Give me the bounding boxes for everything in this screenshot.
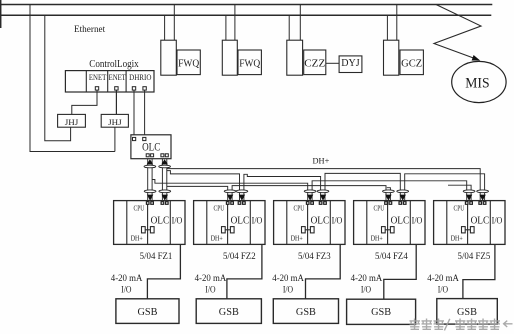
chassis divider 3 — [125, 71, 127, 92]
svg-text:CPU: CPU — [134, 206, 145, 213]
CZZ label box — [304, 50, 326, 75]
GCZ label box — [400, 50, 423, 75]
wire: bus1 drop to CZZ tower — [299, 5, 301, 41]
OLC tap2 transceiver — [161, 159, 168, 164]
svg-text:DH+: DH+ — [451, 234, 463, 242]
FWQ1 server tower — [161, 40, 177, 75]
wire: bus2 drop to FWQ2 tower — [225, 15, 227, 40]
FZ5 rack divider 2 — [467, 201, 469, 245]
OLC bottom terminals channel A — [146, 154, 149, 157]
svg-text:GSB: GSB — [457, 307, 477, 318]
DYJ box — [339, 56, 362, 73]
wire: OLC chA pair down to FZ1 tap1 — [147, 159, 149, 201]
wire: bus1 drop to GCZ tower — [396, 5, 398, 41]
svg-text:GSB: GSB — [296, 307, 316, 318]
svg-text:DH+: DH+ — [131, 234, 143, 242]
DHRIO port A — [132, 87, 135, 90]
svg-text:I/O: I/O — [283, 284, 293, 295]
FZ3 DH+ connector symbol — [302, 227, 306, 233]
svg-text:CPU: CPU — [294, 206, 305, 213]
wire: ENET1 to JHJ1 — [72, 90, 97, 114]
svg-text:GCZ: GCZ — [401, 58, 422, 69]
svg-text:I/O: I/O — [438, 284, 448, 295]
CZZ server tower — [287, 40, 303, 75]
arrowhead into MIS — [472, 55, 481, 61]
svg-text:OLC: OLC — [142, 140, 160, 154]
svg-text:ENET: ENET — [109, 73, 126, 82]
FZ3 tap2 transceiver — [317, 190, 329, 193]
ControlLogix chassis box — [65, 71, 154, 92]
ENET1 port — [95, 87, 98, 90]
FZ1 rack divider 1 — [126, 201, 128, 245]
5/04 FZ3 rack — [274, 201, 345, 245]
wire: DH+ hop FZ3 to FZ4 tap2 — [325, 173, 400, 200]
FZ5 rack divider 3 — [489, 201, 491, 245]
wire: DH+ trunk from OLC to FZ5 tap2 — [167, 169, 480, 201]
FZ2 rack divider 2 — [227, 201, 229, 245]
MIS ellipse — [452, 61, 506, 102]
FZ1 rack divider 2 — [147, 201, 149, 245]
svg-text:JHJ: JHJ — [65, 117, 79, 127]
JHJ1 box — [58, 114, 86, 127]
FZ1 tap terminals — [146, 202, 149, 205]
wire: bus2 left drop to JHJ1 return — [45, 15, 71, 141]
FZ1 DH+ connector symbol — [142, 227, 146, 233]
FZ4 tap terminals — [385, 202, 388, 205]
svg-text:I/O: I/O — [332, 216, 343, 226]
svg-text:4-20 mA: 4-20 mA — [111, 273, 143, 284]
svg-text:CPU: CPU — [454, 206, 465, 213]
wire: FZ4 rack to GSB4 — [384, 244, 416, 299]
FZ2 rack divider 1 — [206, 201, 208, 245]
svg-text:Ethernet: Ethernet — [74, 24, 105, 35]
FZ3 tap terminals — [306, 202, 309, 205]
GSB2 box — [196, 299, 261, 324]
wire: FZ4 tap1 second conductor — [387, 188, 391, 201]
FZ3 tap1 transceiver — [304, 190, 316, 193]
FZ1 tap2 transceiver — [159, 190, 171, 193]
FZ5 rack divider 1 — [446, 201, 448, 245]
left edge tick — [0, 0, 2, 28]
FZ5 tap2 transceiver — [477, 190, 489, 193]
FWQ1 label box — [177, 50, 200, 75]
wire: bus2 drop to CZZ tower — [288, 15, 290, 40]
wire: DH+ hop FZ2 to FZ3 tap2 — [244, 174, 321, 200]
GSB4 box — [347, 299, 416, 324]
svg-text:4-20 mA: 4-20 mA — [272, 273, 304, 284]
FZ2 tap2 transceiver — [236, 190, 248, 193]
FWQ2 label box — [238, 50, 261, 75]
svg-text:OLC: OLC — [151, 216, 170, 227]
svg-text:GSB: GSB — [371, 307, 391, 318]
wire: bus1 drop to FWQ2 tower — [234, 5, 236, 41]
FWQ2 server tower — [222, 40, 237, 75]
svg-text:CPU: CPU — [214, 206, 225, 213]
OLC bottom terminals channel B — [161, 154, 164, 157]
FZ3 rack divider 1 — [286, 201, 288, 245]
FZ3 rack divider 3 — [329, 201, 331, 245]
svg-text:GSB: GSB — [219, 307, 239, 318]
OLC box — [131, 135, 171, 159]
svg-text:OLC: OLC — [311, 216, 330, 227]
svg-text:DYJ: DYJ — [341, 58, 359, 69]
FZ4 tap1 transceiver — [383, 190, 395, 193]
FZ5 tap terminals — [465, 202, 468, 205]
wire: FZ2 rack to GSB2 — [227, 244, 262, 298]
Ethernet bus line 1 — [0, 4, 492, 6]
svg-text:I/O: I/O — [361, 284, 371, 295]
FZ4 tap2 transceiver — [397, 190, 409, 193]
FZ4 DH+ connector symbol — [382, 227, 386, 233]
svg-text:I/O: I/O — [492, 216, 503, 226]
svg-text:I/O: I/O — [121, 284, 131, 295]
wire: FZ5 rack to GSB5 — [463, 244, 495, 298]
svg-text:5/04 FZ4: 5/04 FZ4 — [375, 251, 408, 262]
JHJ2 box — [101, 114, 128, 127]
wire: DH+ hop FZ3 to FZ5 tap1 — [312, 181, 467, 201]
svg-text:DH+: DH+ — [211, 234, 223, 242]
5/04 FZ1 rack — [114, 201, 185, 245]
svg-text:CPU: CPU — [374, 206, 385, 213]
FZ2 rack divider 3 — [249, 201, 251, 245]
svg-text:5/04 FZ5: 5/04 FZ5 — [458, 251, 491, 262]
DHRIO port B — [143, 87, 146, 90]
wire: DH+ hop OLC to FZ2 tap2 — [167, 171, 240, 201]
FZ2 tap terminals — [226, 202, 229, 205]
zigzag link from Ethernet to MIS — [434, 5, 481, 60]
svg-text:4-20 mA: 4-20 mA — [427, 273, 459, 284]
svg-text:GSB: GSB — [138, 307, 158, 318]
wire: FZ5 tap1 second conductor — [448, 185, 471, 200]
wire: OLC chB pair down to FZ1 tap2 — [161, 159, 163, 201]
FZ5 DH+ connector symbol — [462, 227, 466, 233]
svg-text:FWQ: FWQ — [239, 58, 260, 69]
5/04 FZ4 rack — [354, 201, 425, 245]
GSB5 box — [437, 299, 498, 325]
wire: ENET2 to JHJ2 — [115, 90, 117, 114]
wire: bus2 drop to FWQ1 tower — [164, 15, 166, 40]
wire: DH+ branch to FZ2 tap1 — [167, 186, 228, 200]
svg-text:ControlLogix: ControlLogix — [89, 58, 139, 70]
chassis divider 2 — [107, 71, 109, 92]
svg-text:DH+: DH+ — [291, 234, 303, 242]
OLC top port B — [143, 137, 146, 140]
svg-text:FWQ: FWQ — [178, 58, 199, 69]
5/04 FZ2 rack — [194, 201, 265, 245]
svg-text:MIS: MIS — [465, 76, 489, 92]
svg-text:CZZ: CZZ — [304, 58, 325, 69]
wire: bus1 drop to FWQ1 tower — [173, 5, 175, 41]
OLC top port A — [133, 137, 136, 140]
5/04 FZ5 rack — [434, 201, 505, 245]
FZ4 rack divider 2 — [387, 201, 389, 245]
svg-text:I/O: I/O — [205, 284, 215, 295]
svg-text:JHJ: JHJ — [108, 117, 122, 127]
svg-text:OLC: OLC — [471, 216, 490, 227]
svg-text:5/04 FZ3: 5/04 FZ3 — [298, 251, 331, 262]
wire: DHRIO B to OLC — [144, 90, 146, 135]
wire: DH+ hop FZ4 to FZ5 tap2 — [405, 174, 485, 201]
wire: FZ3 rack to GSB3 — [306, 244, 341, 298]
wire: bus1 left drop to JHJ2 return — [30, 5, 115, 152]
FZ2 DH+ connector symbol — [222, 227, 226, 233]
chassis divider 1 — [85, 71, 87, 92]
wire: CZZ to DYJ — [326, 62, 339, 64]
ENET2 port — [115, 87, 118, 90]
GSB3 box — [273, 299, 338, 324]
FZ1 tap1 transceiver — [144, 190, 156, 193]
svg-text:ENET: ENET — [89, 73, 107, 82]
wire: DH+ hop FZ1 to FZ3 tap1 — [152, 180, 308, 201]
svg-text:DH+: DH+ — [371, 234, 383, 242]
FZ1 rack divider 3 — [169, 201, 171, 245]
FZ5 tap1 transceiver — [463, 190, 475, 193]
wire: bus2 drop to GCZ tower — [386, 15, 388, 40]
FZ3 rack divider 2 — [307, 201, 309, 245]
wire: DH+ hop FZ2 to FZ4 tap1 — [232, 186, 386, 201]
svg-text:I/O: I/O — [412, 216, 423, 226]
Ethernet bus line 2 — [0, 14, 491, 16]
svg-text:4-20 mA: 4-20 mA — [195, 273, 227, 284]
FZ4 rack divider 1 — [366, 201, 368, 245]
FZ2 tap1 transceiver — [224, 190, 236, 193]
svg-text:5/04 FZ2: 5/04 FZ2 — [223, 251, 256, 262]
svg-text:5/04 FZ1: 5/04 FZ1 — [140, 251, 173, 262]
svg-text:DHRIO: DHRIO — [129, 73, 151, 82]
svg-text:OLC: OLC — [391, 216, 410, 227]
svg-text:OLC: OLC — [231, 216, 250, 227]
OLC tap1 transceiver — [147, 159, 154, 164]
svg-text:4-20 mA: 4-20 mA — [351, 273, 383, 284]
FZ4 rack divider 3 — [409, 201, 411, 245]
svg-text:I/O: I/O — [172, 216, 183, 226]
svg-text:DH+: DH+ — [313, 155, 330, 165]
svg-text:I/O: I/O — [252, 216, 263, 226]
wire: JHJ2 bottom drop — [114, 127, 116, 151]
GSB1 box — [116, 299, 179, 324]
wire: FZ1 rack to GSB1 — [147, 244, 180, 298]
watermark: gray CJK text imitation — [410, 319, 513, 331]
GCZ server tower — [384, 40, 399, 75]
wire: DHRIO A to OLC — [133, 90, 135, 135]
